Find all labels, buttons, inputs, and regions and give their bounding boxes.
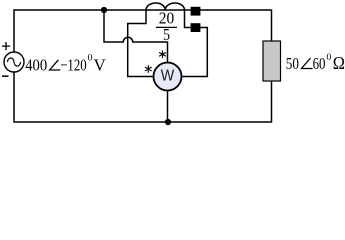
svg-text:−120: −120	[60, 55, 86, 74]
svg-text:W: W	[161, 67, 175, 84]
svg-text:50: 50	[286, 54, 299, 73]
svg-text:5: 5	[163, 25, 170, 44]
svg-text:400: 400	[25, 55, 47, 74]
svg-text:0: 0	[88, 53, 94, 63]
svg-text:60: 60	[313, 54, 326, 73]
svg-text:Ω: Ω	[333, 53, 345, 73]
svg-text:0: 0	[326, 52, 331, 62]
svg-text:V: V	[94, 55, 107, 74]
